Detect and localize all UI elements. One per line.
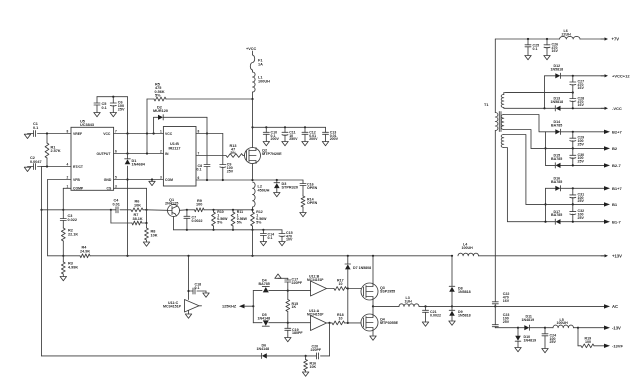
capacitor C21: [423, 306, 442, 322]
wire: [97, 96, 128, 134]
svg-text:8: 8: [198, 129, 200, 133]
inductor L5: [553, 318, 574, 328]
wire: [574, 327, 605, 329]
wire: [42, 167, 48, 210]
svg-text:25V: 25V: [550, 340, 557, 344]
svg-text:1N4819: 1N4819: [522, 318, 535, 322]
net -VCC: [601, 106, 622, 111]
svg-text:2.57K: 2.57K: [51, 149, 61, 153]
svg-text:125KHZ: 125KHZ: [222, 305, 237, 309]
svg-text:+VCC: +VCC: [246, 47, 256, 51]
svg-text:100UH: 100UH: [258, 79, 270, 83]
diode D3: [274, 180, 298, 193]
svg-text:4.99K: 4.99K: [68, 265, 78, 269]
svg-text:25V: 25V: [578, 216, 585, 220]
resistor R6: [131, 200, 147, 212]
wire: [345, 322, 361, 324]
svg-text:2N4125: 2N4125: [165, 202, 178, 206]
svg-text:1N4819: 1N4819: [524, 338, 537, 342]
ground: [370, 336, 376, 340]
ground: [282, 142, 288, 146]
diode D10: [515, 328, 536, 348]
wire: [252, 291, 254, 323]
diode D5: [258, 313, 271, 326]
svg-text:-VCC: -VCC: [612, 106, 622, 111]
ground: [279, 242, 285, 246]
wire: [46, 165, 71, 167]
svg-text:MTP7N20E: MTP7N20E: [262, 152, 282, 156]
svg-text:4: 4: [67, 163, 69, 167]
svg-text:200V: 200V: [271, 137, 280, 141]
svg-text:+VCC+12: +VCC+12: [612, 73, 630, 78]
capacitor C27: [570, 76, 585, 93]
wire: [544, 132, 555, 166]
svg-text:16V: 16V: [503, 299, 510, 303]
capacitor C14: [260, 230, 274, 242]
wire: [90, 255, 453, 257]
ground: [544, 56, 550, 60]
resistor R1: [45, 134, 61, 167]
svg-text:100: 100: [585, 340, 591, 344]
svg-text:10V: 10V: [286, 238, 293, 242]
net +VCC+12: [601, 73, 630, 78]
resistor R15: [286, 291, 298, 323]
ground: [263, 142, 269, 146]
ground: [422, 322, 428, 326]
svg-text:22UH: 22UH: [562, 33, 572, 37]
svg-text:16V: 16V: [578, 103, 585, 107]
svg-text:0.1: 0.1: [195, 286, 200, 290]
capacitor C12: [302, 127, 318, 141]
capacitor C20: [305, 345, 322, 359]
diode D8: [449, 256, 470, 307]
svg-text:B2: B2: [612, 146, 618, 151]
resistor R2: [61, 228, 78, 257]
wire: [253, 322, 310, 324]
wire: [196, 179, 303, 181]
resistor R10: [212, 210, 229, 231]
ground: [515, 348, 521, 352]
svg-text:IR2117: IR2117: [169, 146, 181, 150]
wire: [479, 255, 605, 257]
diode D7: [345, 256, 371, 323]
resistor R7: [132, 213, 147, 225]
svg-text:B1-7: B1-7: [612, 219, 621, 224]
diode D13: [551, 96, 564, 111]
wire: [372, 256, 374, 283]
capacitor C5: [94, 97, 107, 113]
svg-text:OPEN: OPEN: [307, 201, 318, 205]
capacitor C22: [492, 292, 509, 306]
capacitor C8: [197, 134, 211, 182]
svg-text:AC: AC: [612, 304, 618, 309]
diode D1: [125, 159, 146, 167]
capacitor C1: [31, 122, 47, 136]
diode D15: [551, 154, 562, 169]
transistor Q2: [243, 148, 282, 164]
wire: [544, 221, 555, 223]
transformer T1 primary: [484, 39, 498, 302]
svg-text:2: 2: [160, 149, 162, 153]
diode D2: [153, 105, 168, 120]
transistor Q3: [361, 283, 395, 300]
ground: [274, 193, 280, 197]
capacitor C19: [285, 323, 304, 338]
capacitor C9: [220, 163, 234, 181]
svg-text:5%: 5%: [155, 93, 161, 97]
ground: [285, 338, 291, 342]
svg-text:450UH: 450UH: [258, 188, 270, 192]
ground: [203, 293, 209, 297]
wire: [48, 255, 80, 257]
wire: [506, 91, 574, 93]
wire: [530, 327, 553, 329]
wire: [495, 327, 524, 329]
wire: [111, 210, 132, 223]
wire: [561, 75, 604, 77]
svg-text:UC3843: UC3843: [80, 123, 94, 127]
net -13V: [604, 325, 621, 330]
net B2-7: [604, 163, 621, 168]
svg-text:BA785: BA785: [551, 180, 562, 184]
svg-text:0.1: 0.1: [533, 47, 538, 51]
svg-text:5%: 5%: [256, 220, 262, 224]
svg-text:RT/CT: RT/CT: [73, 165, 84, 169]
svg-text:25V: 25V: [578, 143, 585, 147]
svg-text:1A: 1A: [258, 62, 263, 66]
resistor R5: [147, 83, 253, 101]
svg-text:0.0022: 0.0022: [430, 313, 441, 317]
ground: [24, 134, 31, 139]
ground: [110, 113, 116, 117]
wire: [114, 178, 164, 181]
svg-text:MUR120: MUR120: [153, 109, 168, 113]
svg-text:220PF: 220PF: [292, 281, 303, 285]
resistor R13: [226, 144, 243, 157]
wire: [252, 230, 254, 256]
resistor R16: [304, 356, 317, 372]
capacitor C28: [570, 93, 585, 109]
svg-text:OPEN: OPEN: [307, 186, 318, 190]
svg-text:MC34151P: MC34151P: [163, 305, 182, 309]
svg-text:25V: 25V: [118, 107, 125, 111]
wire: [561, 131, 604, 133]
node: [251, 209, 253, 211]
resistor R14: [301, 196, 317, 213]
svg-text:24.9K: 24.9K: [80, 249, 90, 253]
wire: [561, 221, 604, 223]
net B1+7: [604, 186, 622, 191]
svg-text:CS: CS: [107, 187, 112, 191]
op-amp U11:C: [163, 300, 202, 313]
svg-text:VFB: VFB: [73, 178, 80, 182]
ground: [149, 181, 155, 185]
svg-text:1: 1: [160, 129, 162, 133]
resistor R9: [187, 199, 214, 212]
svg-text:B2+7: B2+7: [612, 129, 622, 134]
svg-text:25V: 25V: [227, 169, 234, 173]
svg-text:1N5818: 1N5818: [458, 313, 471, 317]
wire: [561, 107, 604, 109]
resistor R12: [251, 210, 268, 231]
svg-text:VCC: VCC: [103, 132, 111, 136]
diode D9: [449, 306, 470, 321]
svg-text:0.0022: 0.0022: [192, 219, 203, 223]
wire: [327, 322, 333, 324]
ground: [542, 349, 548, 353]
wire: [545, 107, 556, 109]
transistor Q1: [147, 198, 180, 217]
diode D17: [551, 210, 562, 225]
wire: [269, 290, 311, 292]
ic U1 gate driver U1:B: [160, 127, 200, 187]
wire: [180, 209, 188, 211]
svg-text:1N5818: 1N5818: [551, 100, 564, 104]
svg-text:BA785: BA785: [551, 123, 562, 127]
svg-text:5%: 5%: [217, 220, 223, 224]
svg-text:VCC: VCC: [165, 132, 173, 136]
ground: [60, 277, 66, 281]
wire: [187, 256, 189, 300]
resistor R11: [231, 210, 248, 231]
wire: [544, 188, 555, 221]
svg-text:1N5818: 1N5818: [458, 290, 471, 294]
svg-text:B1+7: B1+7: [612, 186, 622, 191]
svg-text:22.1K: 22.1K: [68, 232, 78, 236]
fuse F1: [250, 55, 263, 70]
svg-text:1UH: 1UH: [405, 300, 413, 304]
capacitor C24: [542, 328, 556, 349]
svg-text:16V: 16V: [578, 86, 585, 90]
svg-text:0.022: 0.022: [68, 218, 78, 222]
svg-text:BA785: BA785: [551, 213, 562, 217]
svg-text:GND: GND: [104, 178, 112, 182]
resistor R17: [334, 279, 347, 291]
capacitor C3: [60, 210, 77, 228]
svg-text:250V: 250V: [289, 137, 298, 141]
node COMP-loop: [40, 209, 42, 211]
wire: [531, 147, 604, 149]
transformer core: [499, 112, 501, 132]
svg-text:7: 7: [198, 151, 200, 155]
svg-text:1: 1: [67, 185, 69, 189]
wire: [196, 155, 226, 157]
wire: [526, 203, 604, 205]
wire: [46, 132, 71, 134]
capacitor C6: [110, 97, 125, 113]
capacitor C17: [285, 278, 303, 291]
resistor R18: [332, 313, 345, 325]
resistor R8: [145, 228, 158, 242]
wire: [327, 288, 335, 290]
wire: [114, 152, 164, 154]
wire: [546, 164, 556, 166]
diode D12: [551, 64, 564, 79]
transformer winding B: [501, 115, 545, 149]
net AC: [604, 304, 618, 309]
ground: [322, 142, 328, 146]
transistor Q4: [361, 314, 399, 331]
capacitor C7: [184, 210, 203, 230]
svg-text:0.1: 0.1: [268, 236, 273, 240]
capacitor C15: [279, 230, 293, 242]
wire: [577, 328, 579, 346]
svg-text:100UH: 100UH: [557, 321, 569, 325]
transformer winding A: [501, 93, 573, 109]
net +VCC: [246, 47, 256, 55]
svg-text:220PF: 220PF: [311, 348, 322, 352]
inductor L3: [399, 296, 419, 306]
svg-text:1N4148: 1N4148: [258, 317, 271, 321]
wire: [187, 229, 282, 231]
svg-text:0.1: 0.1: [102, 106, 107, 110]
net +13V: [601, 253, 622, 258]
capacitor C30: [570, 148, 585, 165]
net B2+7: [604, 129, 622, 134]
resistor R4: [80, 246, 90, 258]
wire: [372, 306, 374, 314]
capacitor C2: [30, 156, 47, 169]
svg-text:-13VF: -13VF: [612, 343, 623, 348]
svg-text:IN: IN: [165, 152, 169, 156]
svg-text:200V: 200V: [330, 137, 339, 141]
capacitor C25: [525, 39, 539, 56]
inductor L6: [560, 29, 581, 39]
svg-text:3: 3: [160, 175, 162, 179]
svg-text:D7 1N5808: D7 1N5808: [353, 266, 371, 270]
svg-text:10K: 10K: [151, 233, 158, 237]
wire: [42, 209, 113, 211]
ground: [525, 56, 531, 60]
wire: [146, 99, 148, 154]
ground: [449, 321, 455, 325]
capacitor C13: [323, 127, 339, 141]
svg-text:38.1K: 38.1K: [133, 217, 143, 221]
net +7V: [601, 37, 619, 42]
svg-text:8: 8: [67, 130, 69, 134]
wire: [252, 164, 254, 181]
capacitor C29: [570, 132, 585, 149]
wire: [253, 126, 326, 128]
op-amp U11:A: [307, 309, 327, 330]
net B1-7: [604, 219, 621, 224]
net B2: [604, 146, 618, 151]
svg-text:MC34151P: MC34151P: [307, 313, 324, 317]
svg-text:COMP: COMP: [73, 187, 84, 191]
net -13VF: [604, 343, 623, 348]
capacitor C32: [570, 204, 585, 221]
svg-text:1N4148: 1N4148: [257, 347, 270, 351]
wire: [154, 117, 158, 133]
svg-text:10K: 10K: [134, 203, 141, 207]
wire: [419, 305, 453, 307]
wire: [212, 209, 253, 211]
svg-text:1K: 1K: [292, 305, 297, 309]
capacitor C4: [111, 199, 131, 213]
diode D6: [257, 344, 270, 359]
ic U5 UC3843: [67, 120, 118, 191]
svg-text:10: 10: [339, 317, 343, 321]
wire: [196, 134, 223, 165]
svg-text:MTP3055E: MTP3055E: [380, 321, 399, 325]
wire: [163, 117, 208, 134]
svg-text:25V: 25V: [503, 320, 510, 324]
svg-text:200V: 200V: [309, 137, 318, 141]
svg-text:6: 6: [198, 176, 200, 180]
capacitor C31: [570, 188, 585, 204]
svg-text:1N4684: 1N4684: [132, 163, 146, 167]
svg-text:STPR320: STPR320: [282, 186, 298, 190]
node: [251, 98, 253, 100]
svg-text:5%: 5%: [231, 151, 237, 155]
wire: [561, 164, 604, 166]
svg-text:BA785: BA785: [259, 282, 270, 286]
ground: [185, 311, 191, 319]
wire: [267, 355, 306, 357]
wire: [114, 132, 164, 134]
wire: [543, 76, 555, 110]
diode D11: [522, 315, 535, 331]
wire: [114, 188, 148, 228]
diode D16: [551, 176, 562, 191]
svg-text:10K: 10K: [310, 365, 317, 369]
wire: [251, 99, 253, 148]
capacitor C10: [263, 127, 279, 141]
net B1: [604, 202, 618, 207]
diode D4: [259, 279, 270, 293]
capacitor C18: [189, 282, 207, 294]
wire: [126, 134, 128, 256]
svg-text:-13V: -13V: [612, 325, 621, 330]
diode D14: [551, 120, 562, 134]
wire: [372, 300, 374, 308]
svg-text:100UH: 100UH: [462, 246, 474, 250]
wire: [580, 38, 604, 40]
wire: [42, 210, 262, 356]
ground: [94, 113, 100, 117]
wire: [495, 38, 559, 40]
inductor L4: [458, 243, 479, 256]
wire: [62, 188, 71, 211]
wire: [253, 290, 262, 292]
svg-text:25V: 25V: [578, 160, 585, 164]
svg-text:VREF: VREF: [73, 132, 82, 136]
wire: [561, 187, 604, 189]
svg-text:+13V: +13V: [612, 253, 622, 258]
wire: [174, 217, 188, 231]
ground: [302, 372, 308, 376]
capacitor C16: [300, 180, 318, 196]
svg-text:COM: COM: [165, 178, 173, 182]
wire: [48, 180, 71, 256]
svg-text:10: 10: [339, 282, 343, 286]
ground: [300, 213, 306, 217]
ground: [302, 142, 308, 146]
inductor L1: [253, 70, 271, 99]
svg-text:BA785: BA785: [551, 157, 562, 161]
wire: [452, 305, 604, 307]
svg-text:0.01: 0.01: [113, 202, 120, 206]
resistor R3: [61, 256, 78, 277]
svg-text:OUTPUT: OUTPUT: [97, 152, 112, 156]
svg-text:0.1: 0.1: [33, 126, 38, 130]
wire: [347, 287, 361, 289]
svg-text:1N5818: 1N5818: [551, 67, 564, 71]
ground: [24, 167, 31, 172]
inductor L2: [253, 182, 270, 210]
resistor R19: [578, 336, 604, 347]
ground: [143, 242, 149, 246]
